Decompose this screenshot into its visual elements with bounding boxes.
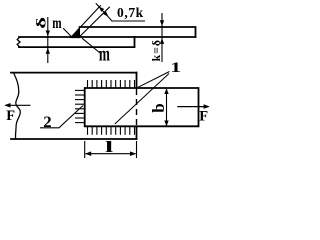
svg-text:δ: δ — [34, 17, 49, 29]
svg-text:1: 1 — [170, 59, 181, 76]
svg-text:b: b — [149, 103, 168, 112]
svg-text:m: m — [52, 14, 62, 31]
svg-text:l: l — [105, 138, 114, 156]
svg-text:F: F — [6, 108, 15, 124]
svg-text:k=δ: k=δ — [149, 39, 163, 61]
svg-text:F: F — [199, 109, 208, 125]
svg-text:0,7k: 0,7k — [117, 5, 144, 20]
